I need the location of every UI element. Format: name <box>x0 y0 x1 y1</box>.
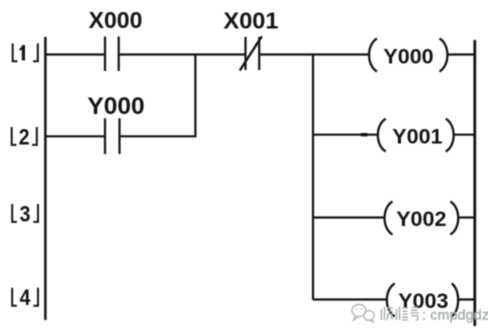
coil text Y002 <box>396 207 446 231</box>
wire main output branch vertical <box>312 55 314 300</box>
contact Y000 (NO seal-in) <box>105 118 120 154</box>
wire rung2 Y000 to branch <box>121 135 197 137</box>
svg-text:4: 4 <box>20 286 31 310</box>
contact X000 (NO) <box>105 37 119 72</box>
svg-text:2: 2 <box>19 125 30 149</box>
coil Y000 <box>369 39 447 72</box>
step number bracket [1] <box>13 43 38 61</box>
wire rung1 X001 to coil Y000 <box>260 53 370 55</box>
svg-text:Y000: Y000 <box>87 93 144 120</box>
coil text Y003 <box>398 289 448 313</box>
svg-text:: cmpdgdz: : cmpdgdz <box>422 307 488 323</box>
step digit 2 <box>19 125 30 149</box>
wire rung1 X000 to X001 <box>120 53 245 55</box>
svg-text:Y002: Y002 <box>396 207 446 231</box>
watermark text cmpdgdz <box>422 307 488 323</box>
right power rail <box>473 40 476 326</box>
svg-text:X001: X001 <box>224 8 279 34</box>
label X001 <box>224 8 279 34</box>
svg-text:X000: X000 <box>89 7 143 33</box>
svg-text:Y000: Y000 <box>383 44 433 68</box>
wire coil Y003 to right rail <box>458 298 475 300</box>
label Y000 (contact) <box>87 93 144 120</box>
wire branch to coil Y002 <box>313 216 385 218</box>
watermark wechat icon <box>352 305 374 323</box>
wire coil Y000 to right rail <box>447 53 474 55</box>
left power rail <box>44 37 47 320</box>
step digit 3 <box>20 202 31 226</box>
coil Y002 <box>385 202 459 235</box>
wire rung1 left rail to contact X000 <box>45 53 104 55</box>
contact X001 (NC) <box>240 36 262 70</box>
wire rung2 left rail to contact Y000 <box>45 135 104 137</box>
wire branch to coil Y001 <box>313 134 379 136</box>
step number bracket [2] <box>12 127 37 145</box>
label X000 <box>89 7 143 33</box>
step digit 4 <box>20 286 31 310</box>
step digit 1 <box>20 45 25 60</box>
coil text Y000 <box>383 44 433 68</box>
coil Y001 <box>378 119 454 152</box>
step number bracket [3] <box>12 204 38 222</box>
step number bracket [4] <box>12 288 38 306</box>
wire coil Y001 to right rail <box>453 134 474 136</box>
svg-text:Y001: Y001 <box>392 124 442 148</box>
coil Y003 <box>387 284 458 317</box>
watermark text 微信号 (CJK strokes) <box>382 307 420 321</box>
wire branch to coil Y003 <box>313 298 387 300</box>
wire coil Y002 to right rail <box>458 216 474 218</box>
coil text Y001 <box>392 124 442 148</box>
wire junction branch vertical (seal branch) <box>194 55 196 138</box>
svg-text:3: 3 <box>20 202 31 226</box>
